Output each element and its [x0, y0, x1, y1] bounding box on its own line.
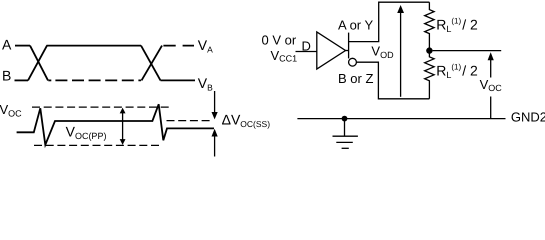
- svg-text:VOD: VOD: [371, 44, 394, 60]
- svg-text:0 V or: 0 V or: [262, 33, 297, 48]
- svg-text:VA: VA: [198, 37, 213, 55]
- svg-text:RL(1)/ 2: RL(1)/ 2: [436, 62, 478, 80]
- svg-text:B or Z: B or Z: [338, 71, 373, 86]
- svg-text:GND2: GND2: [511, 110, 545, 125]
- svg-text:B: B: [2, 68, 11, 84]
- svg-text:VOC(PP): VOC(PP): [66, 124, 107, 142]
- svg-text:A: A: [2, 36, 12, 52]
- svg-text:RL(1)/ 2: RL(1)/ 2: [436, 16, 478, 34]
- svg-text:VCC1: VCC1: [271, 48, 298, 64]
- svg-text:ΔVOC(SS): ΔVOC(SS): [222, 111, 271, 129]
- svg-text:VOC: VOC: [480, 77, 503, 93]
- svg-text:D: D: [302, 39, 311, 54]
- svg-text:VB: VB: [198, 75, 213, 93]
- svg-text:VOC: VOC: [0, 102, 22, 118]
- svg-text:A or Y: A or Y: [338, 17, 374, 32]
